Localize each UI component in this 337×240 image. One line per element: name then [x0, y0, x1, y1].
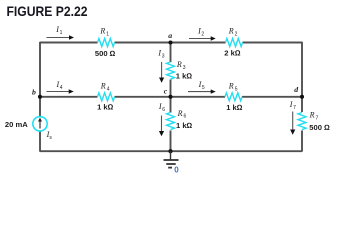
wire top-left segment (corner to R1)	[40, 42, 98, 44]
wire middle row b to R4	[40, 96, 98, 98]
svg-text:R: R	[176, 60, 182, 69]
resistor R5 zigzag	[225, 93, 242, 101]
svg-text:R: R	[177, 109, 183, 118]
wire right side (top corner to R7)	[301, 42, 303, 112]
current arrow I6 (down)	[159, 116, 164, 137]
svg-text:d: d	[294, 85, 298, 94]
svg-text:FIGURE P2.22: FIGURE P2.22	[7, 3, 88, 19]
wire middle row R5 to node d	[242, 96, 302, 98]
wire middle row R4 to R5 through node c	[115, 96, 226, 98]
wire left side (top corner to current source)	[39, 42, 41, 117]
current label I7	[289, 100, 296, 111]
svg-text:3: 3	[183, 65, 186, 71]
resistor R6 label	[177, 109, 187, 120]
node c dot	[168, 95, 172, 99]
node a dot	[168, 40, 172, 44]
wire node a to R3	[170, 43, 172, 63]
svg-text:4: 4	[60, 85, 63, 91]
resistor R3 zigzag (vertical)	[167, 62, 175, 79]
resistor R7 label	[309, 110, 319, 121]
svg-text:2: 2	[201, 32, 204, 38]
current arrow I2	[189, 36, 216, 40]
resistor R4 zigzag	[98, 93, 115, 101]
resistor R7 zigzag (vertical)	[298, 113, 306, 130]
current arrow I7 (down)	[290, 112, 295, 135]
svg-text:1 kΩ: 1 kΩ	[176, 72, 193, 81]
svg-text:7: 7	[316, 115, 319, 121]
current source label Is	[46, 130, 53, 141]
svg-text:R: R	[228, 82, 234, 91]
current label I4	[56, 80, 63, 91]
wire left side (current source to bottom corner)	[39, 131, 41, 152]
svg-text:R: R	[99, 27, 105, 36]
wire R3 to node c	[170, 80, 172, 97]
resistor R6 zigzag (vertical)	[167, 113, 175, 130]
wire top middle segment (R1 to R2 through node a)	[115, 42, 226, 44]
current arrow I4	[47, 89, 74, 93]
current arrow I5	[188, 89, 216, 93]
resistor R1 zigzag	[98, 39, 115, 47]
svg-text:1: 1	[60, 30, 63, 36]
wire bottom row	[40, 150, 302, 152]
current label I5	[198, 80, 205, 91]
wire node c to R6	[170, 97, 172, 113]
svg-text:1: 1	[106, 32, 109, 38]
svg-text:1 kΩ: 1 kΩ	[226, 103, 243, 112]
svg-text:1 kΩ: 1 kΩ	[176, 121, 193, 130]
current arrow I3 (down)	[159, 62, 164, 83]
current source arrow (up)	[38, 118, 42, 129]
node b dot	[38, 95, 42, 99]
current label I3	[157, 49, 164, 60]
ground junction dot	[168, 149, 172, 153]
svg-text:2 kΩ: 2 kΩ	[224, 49, 241, 58]
svg-text:b: b	[32, 88, 36, 97]
node d dot	[300, 95, 304, 99]
svg-text:c: c	[164, 86, 168, 95]
wire top-right segment (R2 to corner)	[243, 42, 303, 44]
resistor R3 label	[176, 60, 186, 71]
svg-text:5: 5	[235, 87, 238, 93]
current label I1	[55, 25, 62, 36]
svg-text:500 Ω: 500 Ω	[95, 49, 116, 58]
svg-text:a: a	[168, 31, 172, 40]
wire right side (R7 to bottom corner)	[301, 131, 303, 152]
svg-text:R: R	[100, 82, 106, 91]
resistor R2 zigzag	[226, 39, 243, 47]
svg-text:1 kΩ: 1 kΩ	[97, 103, 114, 112]
svg-text:500 Ω: 500 Ω	[309, 123, 330, 132]
wire R6 to bottom	[170, 131, 172, 152]
current label I6	[158, 102, 165, 113]
current label I2	[197, 27, 204, 38]
svg-text:4: 4	[107, 87, 110, 93]
svg-text:R: R	[228, 27, 234, 36]
svg-text:7: 7	[293, 105, 296, 111]
svg-text:R: R	[309, 110, 315, 119]
resistor R2 label	[228, 27, 238, 38]
current source Is circle	[33, 117, 47, 131]
current arrow I1	[47, 35, 75, 39]
resistor R1 label	[99, 27, 109, 38]
svg-text:0: 0	[174, 165, 179, 174]
svg-text:2: 2	[235, 32, 238, 38]
ground symbol	[164, 151, 179, 167]
resistor R4 label	[100, 82, 110, 93]
svg-text:6: 6	[184, 114, 187, 120]
svg-text:5: 5	[202, 85, 205, 91]
resistor R5 label	[228, 82, 238, 93]
svg-text:20 mA: 20 mA	[5, 120, 28, 129]
svg-text:6: 6	[162, 107, 165, 113]
svg-text:3: 3	[162, 54, 165, 60]
